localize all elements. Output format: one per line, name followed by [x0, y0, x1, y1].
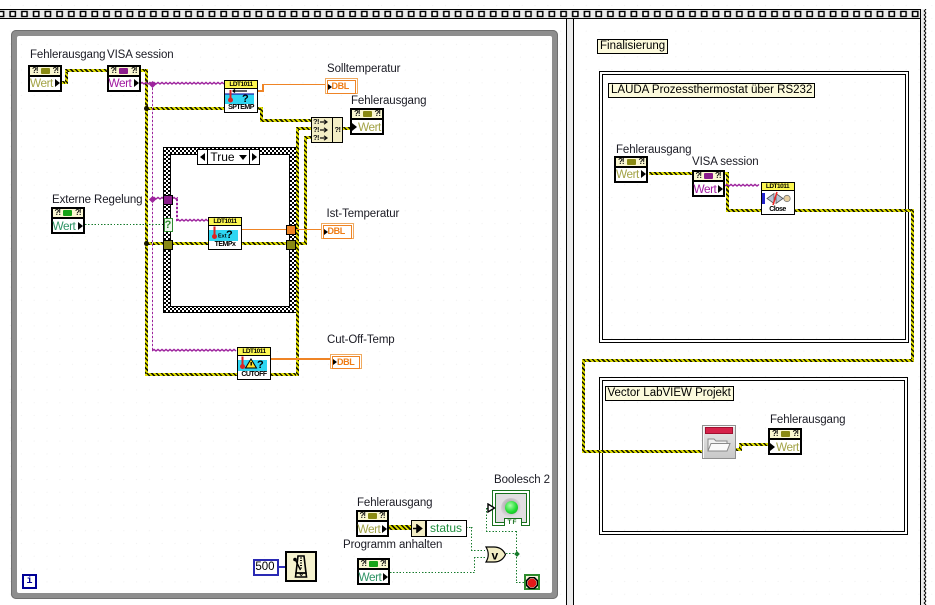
label Ist-Temperatur: [327, 208, 400, 220]
merge errors node: [311, 117, 343, 143]
label box LAUDA Prozessthermostat ueber RS232: [608, 83, 815, 98]
VISA purple wire node2 to SPTEMP: [140, 81, 224, 87]
orange wire TEMPx to Ist-Temperatur: [240, 229, 321, 231]
boolean wire Programm anhalten to OR gate: [390, 572, 476, 573]
DBL indicator Solltemperatur: [325, 78, 358, 95]
svg-text:?: ?: [242, 93, 249, 104]
property node Externe Regelung: [51, 207, 85, 234]
error wire vertical down outside box1: [911, 209, 914, 362]
label Fehlerausgang (right frame bottom): [770, 414, 845, 426]
purple vertical inside case x=177: [176, 199, 178, 221]
decoration box LAUDA (double border): [599, 71, 909, 343]
boolean wire junction down to stop terminal: [516, 554, 517, 583]
flat sequence right torn edge: [920, 9, 924, 605]
unbundle by name node: arrow box: [411, 520, 426, 537]
error cluster thick wire Fehlerausgang3 to unbundle: [388, 525, 411, 530]
label Fehlerausgang (right frame): [616, 144, 691, 156]
error wire junction at (146,243.5): [144, 241, 149, 246]
while loop border: [11, 30, 558, 599]
property node VISA session (right frame): [692, 170, 725, 197]
label Fehlerausgang (top-left): [30, 49, 105, 61]
error wire: CUTOFF row y=374: [146, 373, 238, 376]
error wire into project VI y=451: [582, 450, 703, 453]
loop iteration terminal i: [22, 574, 37, 589]
svg-text:?: ?: [226, 229, 233, 241]
VI TEMPx: [208, 217, 242, 250]
label box Vector LabVIEW Projekt: [605, 386, 734, 401]
label Externe Regelung: [52, 194, 142, 206]
property node Fehlerausgang (right frame): [614, 156, 648, 183]
error wire: top horizontal run to x=146: [65, 69, 148, 72]
flat sequence structure: top film-strip border: [0, 9, 922, 19]
Wait (ms) function with metronome icon: [285, 551, 317, 582]
error wire Fehlerausgang to VISA node (right frame): [649, 172, 729, 175]
VI SPTEMP: [224, 80, 258, 113]
VI Close: [761, 182, 795, 215]
boolean wire Externe Regelung to case selector: [85, 224, 164, 225]
error wire horizontal back left y=360.5: [582, 359, 914, 362]
error wire: vertical x=305 up to merge input 3: [304, 136, 307, 245]
purple junction at (152.5,84): [149, 80, 156, 87]
boolean wire status to OR gate: [466, 527, 473, 528]
error wire: main vertical trunk x=146: [145, 69, 148, 376]
property node Programm anhalten: [357, 558, 390, 585]
error wire: elbow down to merge input 1: [260, 107, 263, 123]
VI CUTOFF: [237, 347, 271, 380]
unbundle by name node: status element: [426, 520, 467, 537]
case structure border (checkered): [163, 147, 297, 313]
label Solltemperatur: [327, 63, 400, 75]
loop condition stop terminal: [524, 574, 540, 590]
boolean indicator input arrow: [487, 503, 496, 513]
DBL indicator Ist-Temperatur: [321, 223, 354, 240]
error wire vertical down x=583.5: [582, 359, 585, 453]
label VISA session (right frame): [692, 156, 759, 168]
case tunnel olive bottom-right: [286, 240, 296, 250]
blue wire 500 to Wait: [277, 566, 286, 568]
case selector label True: [197, 149, 260, 165]
OR gate: [485, 546, 507, 563]
label Fehlerausgang (bottom): [357, 497, 432, 509]
decoration box Vector (double border): [599, 377, 908, 535]
property node Fehlerausgang write (right frame bottom): [768, 428, 802, 455]
purple wire to CUTOFF y=350.5: [152, 348, 238, 354]
case tunnel olive bottom-left: [163, 240, 173, 250]
label Cut-Off-Temp: [327, 334, 395, 346]
purple wire to TEMPx y=220.5: [176, 218, 210, 224]
property node Fehlerausgang 2 (write): [350, 108, 384, 135]
property node Fehlerausgang 3: [356, 510, 389, 537]
boolean wire OR output to junction: [506, 553, 517, 554]
svg-text:v: v: [492, 548, 499, 562]
property node Fehlerausgang 1: [28, 65, 62, 92]
numeric constant 500: [253, 559, 279, 576]
boolean wire junction up to Boolesch 2: [516, 531, 517, 555]
error wire project VI out jog: [734, 448, 742, 451]
error wire: node1 Wert out elbow: [62, 81, 68, 84]
error wire: merge output to Fehlerausgang indicator node: [343, 127, 351, 130]
svg-text:?: ?: [257, 359, 264, 371]
Boolesch 2 LED indicator terminal: [492, 490, 530, 527]
flat sequence frame divider between frame 1 and frame 2: [566, 19, 574, 605]
case tunnel orange right: [286, 225, 296, 235]
purple junction at (152.5,199): [149, 195, 156, 202]
purple wire to case tunnel y=199: [152, 196, 178, 202]
error wire Close out to frame right: [793, 209, 915, 212]
error wire: vertical x=297.5 up to merge input 2: [296, 127, 299, 376]
label VISA session (top-left): [107, 49, 174, 61]
DBL indicator Cut-Off-Temp: [330, 354, 362, 370]
error wire elbow down right of VISA node: [726, 172, 729, 213]
case tunnel purple: [163, 195, 173, 205]
label Fehlerausgang (top-right): [351, 95, 426, 107]
case selector ? terminal: [164, 218, 173, 233]
error wire: case row y=243.5: [146, 242, 288, 245]
property node VISA session: [107, 65, 141, 92]
error wire junction at (146,108): [144, 106, 149, 111]
purple wire VISA to Close (right frame): [725, 183, 761, 189]
case structure interior: [170, 154, 290, 307]
VI LabVIEW project (folder icon): [702, 425, 736, 459]
VISA purple vertical trunk x=152.5: [152, 84, 154, 351]
boolean junction diamond: [514, 551, 520, 557]
orange wire SPTEMP to Solltemperatur: [256, 90, 264, 92]
orange wire CUTOFF to Cut-Off-Temp: [269, 358, 331, 360]
label box Finalisierung: [597, 39, 668, 54]
error wire: SPTEMP row y=108: [146, 107, 263, 110]
label Boolesch 2: [494, 474, 550, 486]
label Programm anhalten: [343, 539, 442, 551]
